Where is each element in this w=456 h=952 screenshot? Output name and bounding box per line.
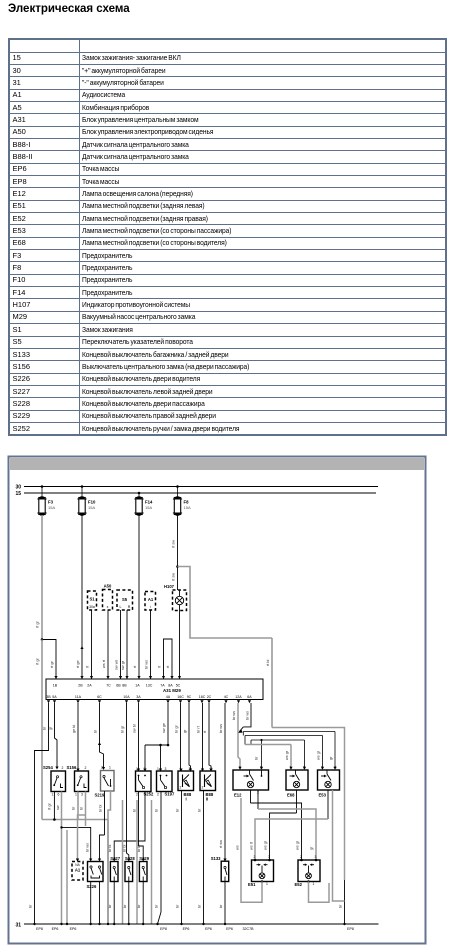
svg-text:A31 M29: A31 M29: [163, 688, 181, 693]
svg-text:F10: F10: [88, 500, 96, 505]
svg-text:br bl: br bl: [99, 804, 103, 812]
svg-text:br: br: [176, 808, 180, 812]
svg-text:br: br: [255, 756, 259, 760]
svg-text:EP6: EP6: [205, 927, 212, 931]
svg-text:8A: 8A: [168, 684, 173, 688]
svg-text:sw: sw: [56, 805, 60, 810]
svg-text:32C7B: 32C7B: [243, 927, 255, 931]
svg-text:3A: 3A: [136, 695, 141, 699]
svg-text:2: 2: [62, 766, 64, 770]
svg-text:S219: S219: [95, 793, 105, 798]
svg-text:rt gr: rt gr: [36, 658, 40, 665]
svg-text:ws: ws: [236, 845, 240, 850]
svg-text:3: 3: [315, 855, 317, 859]
svg-text:A1: A1: [148, 597, 154, 602]
svg-text:1: 1: [290, 766, 292, 770]
svg-text:3: 3: [335, 766, 337, 770]
svg-text:x: x: [107, 605, 109, 609]
svg-text:br ws: br ws: [246, 711, 250, 720]
svg-text:br: br: [29, 904, 33, 908]
svg-text:1: 1: [321, 766, 323, 770]
svg-text:30a: 30a: [89, 605, 95, 609]
svg-text:rt sw: rt sw: [172, 540, 176, 548]
svg-text:3: 3: [81, 792, 83, 796]
svg-text:31: 31: [15, 923, 21, 929]
svg-text:EP6: EP6: [52, 927, 59, 931]
svg-text:gr: gr: [310, 846, 314, 850]
svg-text:bl: bl: [80, 807, 84, 810]
svg-text:br: br: [176, 904, 180, 908]
svg-text:E52: E52: [295, 882, 303, 887]
svg-text:2B: 2B: [78, 684, 83, 688]
svg-text:bl: bl: [155, 809, 159, 812]
svg-text:F8: F8: [184, 500, 190, 505]
svg-text:ws gr: ws gr: [296, 840, 300, 850]
svg-text:S254: S254: [43, 765, 53, 770]
svg-text:2C: 2C: [207, 695, 212, 699]
svg-text:1: 1: [266, 882, 268, 886]
svg-text:11A: 11A: [75, 695, 82, 699]
svg-text:sw gr: sw gr: [121, 660, 125, 670]
svg-text:15A: 15A: [88, 505, 95, 510]
svg-text:6B: 6B: [116, 684, 121, 688]
svg-text:rt sw: rt sw: [219, 840, 223, 848]
svg-text:bl gr: bl gr: [121, 725, 125, 733]
svg-text:i: i: [150, 605, 151, 609]
svg-text:3B: 3B: [46, 695, 51, 699]
svg-text:ws gr: ws gr: [317, 750, 321, 760]
svg-text:ge bl: ge bl: [72, 725, 76, 733]
svg-text:15: 15: [15, 491, 21, 497]
svg-text:6: 6: [58, 792, 60, 796]
svg-text:S197: S197: [165, 792, 175, 797]
svg-text:5A: 5A: [52, 695, 57, 699]
svg-text:rt gr: rt gr: [36, 621, 40, 628]
svg-text:3: 3: [268, 855, 270, 859]
svg-text:EP6: EP6: [70, 927, 77, 931]
svg-text:1A: 1A: [135, 684, 140, 688]
svg-text:gr: gr: [329, 756, 333, 760]
svg-text:II: II: [206, 797, 208, 802]
svg-text:ws rt: ws rt: [250, 841, 254, 850]
svg-text:sw ws: sw ws: [115, 660, 119, 670]
svg-text:S229: S229: [139, 856, 149, 861]
svg-text:30: 30: [15, 484, 21, 490]
svg-text:sw bl: sw bl: [133, 724, 137, 733]
svg-text:2: 2: [101, 766, 103, 770]
svg-text:2: 2: [85, 766, 87, 770]
svg-text:br ws: br ws: [86, 843, 90, 852]
svg-text:EP8: EP8: [36, 927, 43, 931]
svg-text:br: br: [72, 806, 76, 810]
svg-text:rt sw: rt sw: [172, 573, 176, 581]
svg-text:2: 2: [300, 855, 302, 859]
svg-text:5C: 5C: [176, 684, 181, 688]
svg-text:15A: 15A: [184, 505, 191, 510]
svg-text:1: 1: [75, 792, 77, 796]
svg-text:S227: S227: [110, 856, 120, 861]
svg-text:br rt: br rt: [197, 725, 201, 733]
svg-text:br bl: br bl: [108, 844, 112, 852]
svg-text:12A: 12A: [235, 695, 242, 699]
svg-text:bl: bl: [133, 809, 137, 812]
svg-text:1: 1: [239, 766, 241, 770]
svg-text:bl: bl: [94, 730, 98, 733]
svg-text:7A: 7A: [160, 684, 165, 688]
svg-text:sw ge: sw ge: [162, 723, 166, 733]
svg-text:S228: S228: [125, 856, 135, 861]
svg-text:S133: S133: [211, 856, 221, 861]
svg-text:6C: 6C: [97, 695, 102, 699]
svg-text:13C: 13C: [146, 684, 153, 688]
svg-text:2: 2: [157, 793, 159, 797]
svg-text:rt gr: rt gr: [50, 661, 54, 668]
svg-text:3: 3: [260, 766, 262, 770]
svg-text:S5: S5: [122, 597, 128, 602]
svg-text:rt ge: rt ge: [76, 660, 80, 668]
svg-text:br: br: [123, 904, 127, 908]
svg-text:A1: A1: [75, 868, 81, 873]
svg-text:rt: rt: [158, 665, 162, 668]
svg-text:1: 1: [52, 792, 54, 796]
svg-text:E68: E68: [287, 793, 295, 798]
svg-text:L: L: [120, 605, 122, 609]
svg-text:rt: rt: [86, 665, 90, 668]
svg-text:2: 2: [202, 786, 204, 790]
svg-text:br: br: [198, 904, 202, 908]
svg-text:F3: F3: [48, 500, 54, 505]
svg-text:ws rt: ws rt: [102, 659, 106, 668]
svg-text:br ws: br ws: [219, 724, 223, 733]
svg-text:S226: S226: [87, 884, 97, 889]
svg-text:1: 1: [313, 882, 315, 886]
svg-text:2A: 2A: [87, 684, 92, 688]
svg-text:rt bl: rt bl: [266, 660, 270, 666]
svg-text:15A: 15A: [48, 505, 55, 510]
svg-text:8B: 8B: [122, 684, 127, 688]
svg-text:I: I: [186, 797, 187, 802]
svg-text:br ws: br ws: [232, 711, 236, 720]
svg-text:4A: 4A: [166, 695, 171, 699]
svg-text:rt: rt: [166, 665, 170, 668]
svg-text:1B: 1B: [53, 684, 58, 688]
svg-text:2: 2: [254, 855, 256, 859]
svg-text:7C: 7C: [106, 684, 111, 688]
svg-text:br: br: [198, 808, 202, 812]
svg-text:br: br: [137, 904, 141, 908]
svg-text:E12: E12: [234, 793, 242, 798]
svg-text:10A: 10A: [123, 695, 130, 699]
svg-text:E53: E53: [319, 793, 327, 798]
svg-text:gr: gr: [49, 726, 53, 730]
svg-text:br: br: [219, 904, 223, 908]
svg-text:16C: 16C: [177, 695, 184, 699]
svg-text:1: 1: [109, 766, 111, 770]
svg-text:rt: rt: [203, 730, 207, 733]
svg-text:br: br: [43, 726, 47, 730]
svg-text:4C: 4C: [224, 695, 229, 699]
svg-text:S156: S156: [67, 765, 77, 770]
svg-text:2: 2: [180, 786, 182, 790]
svg-text:R: R: [128, 605, 131, 609]
svg-text:EP8: EP8: [347, 927, 354, 931]
svg-text:E51: E51: [248, 882, 256, 887]
svg-text:br ws: br ws: [145, 660, 149, 669]
svg-text:3: 3: [303, 766, 305, 770]
svg-text:ws gr: ws gr: [285, 750, 289, 760]
svg-text:ws gr: ws gr: [264, 840, 268, 850]
svg-text:F14: F14: [145, 500, 153, 505]
svg-text:15A: 15A: [145, 505, 152, 510]
svg-text:br gr: br gr: [175, 724, 179, 733]
svg-text:rt: rt: [133, 665, 137, 668]
svg-text:br: br: [155, 904, 159, 908]
svg-text:A50: A50: [104, 584, 112, 589]
svg-text:EP6: EP6: [183, 927, 190, 931]
svg-text:EP6: EP6: [226, 927, 233, 931]
svg-text:2: 2: [136, 793, 138, 797]
svg-text:9C: 9C: [187, 695, 192, 699]
svg-text:br: br: [339, 904, 343, 908]
svg-text:S1: S1: [89, 597, 95, 602]
svg-text:NA: NA: [75, 863, 80, 867]
svg-text:gr: gr: [183, 729, 187, 733]
svg-text:H107: H107: [164, 584, 175, 589]
svg-text:6A: 6A: [247, 695, 252, 699]
svg-text:EP8: EP8: [160, 927, 167, 931]
svg-text:rt gr: rt gr: [48, 803, 52, 810]
svg-text:18C: 18C: [199, 695, 206, 699]
